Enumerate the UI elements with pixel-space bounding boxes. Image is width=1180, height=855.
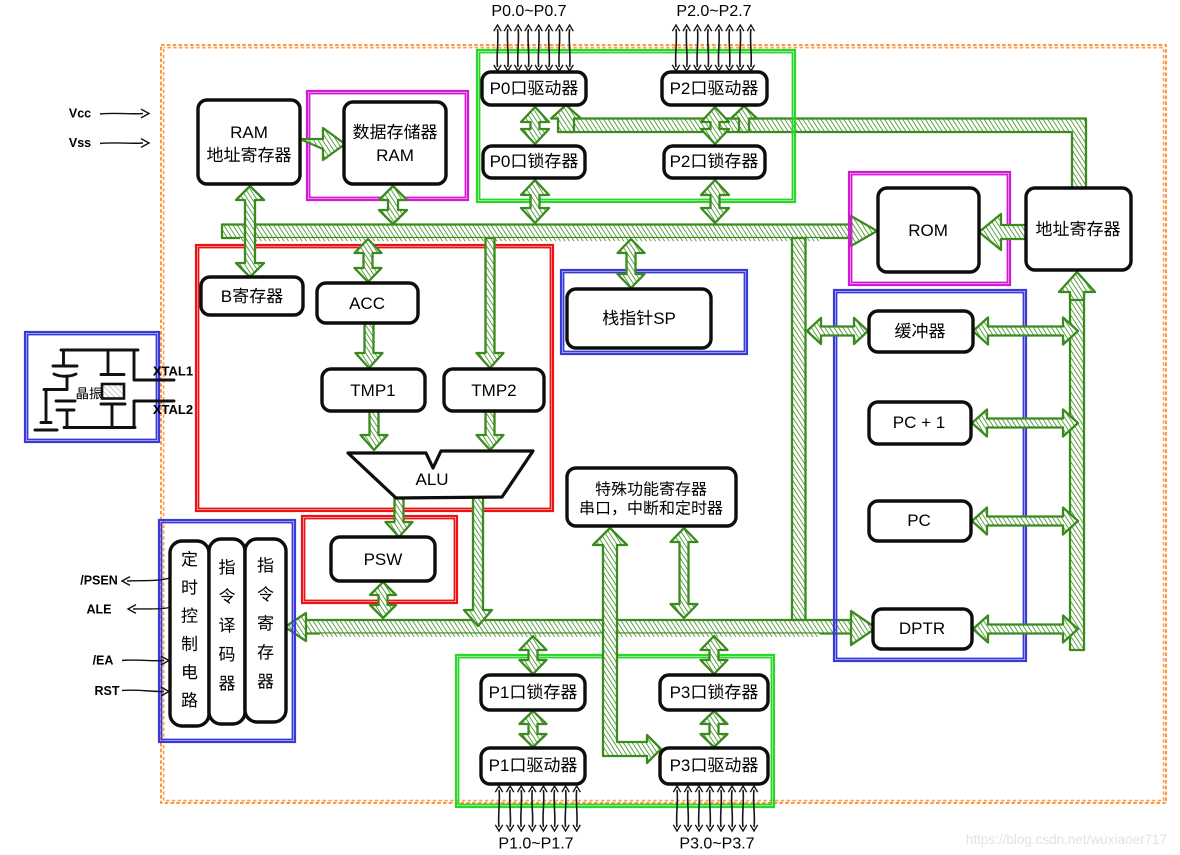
label crystal: [77, 387, 88, 399]
svg-text:P3: P3: [670, 756, 691, 775]
svg-text:XTAL2: XTAL2: [153, 402, 193, 417]
crystal oscillator circuit wires: [44, 350, 174, 428]
arrowhead lower bus right into DPTR: [851, 611, 876, 645]
arrow bus to ACC bidirectional: [355, 239, 382, 282]
port pins P0.0-P0.7: [496, 29, 499, 67]
box data memory RAM: [344, 102, 446, 184]
svg-text:SP: SP: [653, 309, 676, 328]
box PC: [869, 501, 971, 541]
red container box ALU: [196, 245, 553, 511]
arrow buffer to right bus bidirectional: [973, 318, 1078, 345]
arrowhead right bus up into address register: [1059, 272, 1095, 300]
arrow ALU to PSW: [386, 498, 413, 537]
box ACC: [317, 283, 418, 323]
upper right address bus to address register: [566, 119, 1086, 189]
svg-text:RAM: RAM: [376, 146, 414, 165]
green container box ports P0 P2: [477, 50, 795, 202]
box P0 port latch: [483, 146, 585, 178]
svg-text:https://blog.csdn.net/wuxiaoer: https://blog.csdn.net/wuxiaoer717: [966, 832, 1167, 847]
svg-text:P1.0~P1.7: P1.0~P1.7: [498, 836, 573, 853]
box TMP2: [444, 369, 544, 411]
box P1 port driver: [481, 748, 585, 784]
svg-text:Vcc: Vcc: [69, 106, 91, 120]
box P2 port latch: [664, 146, 765, 178]
blue container box timing control: [159, 520, 295, 742]
ground symbol: [35, 423, 57, 431]
box PSW: [331, 537, 435, 581]
svg-text:P2: P2: [670, 152, 691, 171]
lower main bus: [304, 620, 853, 634]
arrow P3 latch to P3 driver bidirectional: [701, 711, 728, 747]
svg-text:P3: P3: [670, 683, 691, 702]
svg-text:RST: RST: [95, 684, 120, 698]
main upper data bus: [222, 225, 851, 239]
svg-text:P1: P1: [489, 683, 510, 702]
svg-text:P0: P0: [490, 79, 511, 98]
box ROM: [878, 188, 979, 272]
box P3 port driver: [660, 748, 768, 784]
arrow data RAM to bus bidirectional: [379, 186, 407, 224]
svg-text:P1: P1: [489, 756, 510, 775]
arrow TMP1 to ALU: [361, 411, 388, 450]
blue container box crystal: [25, 332, 159, 442]
svg-text:RAM: RAM: [230, 123, 268, 142]
arrow DPTR to right bus bidirectional: [973, 616, 1078, 643]
arrow P2 latch to bus bidirectional: [701, 180, 729, 223]
arrow SFR to lower bus bidirectional: [671, 528, 698, 618]
arrow bus to P3 latch bidirectional: [701, 636, 728, 674]
arrow P2 driver-latch bidirectional: [701, 107, 729, 144]
box instruction decoder vertical: [209, 539, 245, 724]
box stack pointer SP: [567, 289, 711, 348]
svg-text:/EA: /EA: [93, 653, 114, 667]
box PC plus 1: [869, 402, 971, 444]
arrow bus to stack pointer bidirectional: [618, 239, 645, 288]
blue container box PC DPTR registers: [834, 290, 1026, 661]
box address register right: [1026, 188, 1131, 270]
arrow address register to ROM: [979, 214, 1027, 250]
box P1 port latch: [481, 675, 585, 710]
box P3 port latch: [660, 675, 768, 710]
arrow bus to P1 latch bidirectional: [520, 636, 547, 674]
svg-text:TMP2: TMP2: [471, 381, 516, 400]
arrowhead upper bus into ROM: [851, 216, 877, 246]
arrow PC+1 to right bus bidirectional: [972, 410, 1078, 437]
red container box PSW: [302, 516, 457, 603]
box timing control circuit vertical: [170, 541, 209, 726]
blue container box stack pointer: [561, 270, 747, 354]
box P2 port driver: [662, 72, 767, 105]
svg-text:ACC: ACC: [349, 294, 385, 313]
svg-text:PSW: PSW: [364, 550, 403, 569]
arrowhead address bus up into P0 driver: [551, 105, 581, 132]
svg-text:Vss: Vss: [69, 136, 91, 150]
port pins P1.0-P1.7: [498, 790, 501, 827]
magenta container box data RAM: [307, 91, 468, 200]
green container box ports P1 P3: [456, 655, 774, 807]
box RAM address register: [198, 100, 300, 184]
box instruction register vertical: [245, 539, 286, 722]
svg-text:PC + 1: PC + 1: [893, 413, 945, 432]
arrowhead lower bus left into instruction register: [285, 613, 306, 641]
orange dashed outer frame: [161, 45, 1166, 803]
arrow RAM address register to B register bidirectional: [236, 186, 264, 277]
svg-text:P2.0~P2.7: P2.0~P2.7: [676, 3, 751, 20]
port pins P3.0-P3.7: [676, 790, 679, 827]
box DPTR: [873, 609, 972, 649]
svg-text:B: B: [221, 287, 232, 306]
arrow ALU to lower bus: [464, 497, 492, 626]
arrow TMP2 to ALU: [477, 411, 504, 450]
svg-text:P0: P0: [490, 152, 511, 171]
svg-text:TMP1: TMP1: [350, 381, 395, 400]
svg-text:PC: PC: [907, 511, 931, 530]
svg-text:/PSEN: /PSEN: [80, 573, 118, 587]
arrow P0 driver-latch bidirectional: [521, 107, 549, 144]
arrow buffer to left bus bidirectional: [807, 318, 868, 344]
svg-text:ALE: ALE: [87, 602, 112, 616]
box B register: [201, 277, 303, 315]
port pins P2.0-P2.7: [675, 29, 678, 67]
right vertical bus: [1070, 292, 1084, 650]
svg-text:XTAL1: XTAL1: [153, 364, 193, 379]
svg-text:ALU: ALU: [416, 470, 449, 489]
arrow address bus up into P2 driver: [731, 106, 757, 132]
arrow RAM address register to data RAM: [300, 128, 345, 160]
arrow ACC to TMP1: [356, 323, 383, 368]
arrow P1 latch to P1 driver bidirectional: [520, 711, 547, 747]
ALU trapezoid: [348, 451, 533, 498]
svg-text:DPTR: DPTR: [899, 619, 945, 638]
svg-text:P0.0~P0.7: P0.0~P0.7: [491, 3, 566, 20]
arrow PSW to lower bus bidirectional: [370, 582, 396, 618]
arrow bus to TMP2: [477, 238, 504, 368]
svg-text:ROM: ROM: [908, 221, 948, 240]
arrow P0 latch to bus bidirectional: [521, 180, 549, 223]
arrow lower bus to SFR and P3 driver L-shaped: [593, 528, 661, 763]
crystal Y1 body: [102, 384, 124, 399]
svg-text:P3.0~P3.7: P3.0~P3.7: [679, 836, 754, 853]
box TMP1: [322, 369, 425, 411]
left vertical bus: [792, 238, 806, 620]
arrow PC to right bus bidirectional: [972, 508, 1078, 535]
svg-text:P2: P2: [670, 79, 691, 98]
box P0 port driver: [482, 72, 586, 105]
magenta container box ROM: [849, 172, 1010, 285]
box buffer: [869, 311, 973, 352]
box special function registers: [567, 468, 736, 526]
